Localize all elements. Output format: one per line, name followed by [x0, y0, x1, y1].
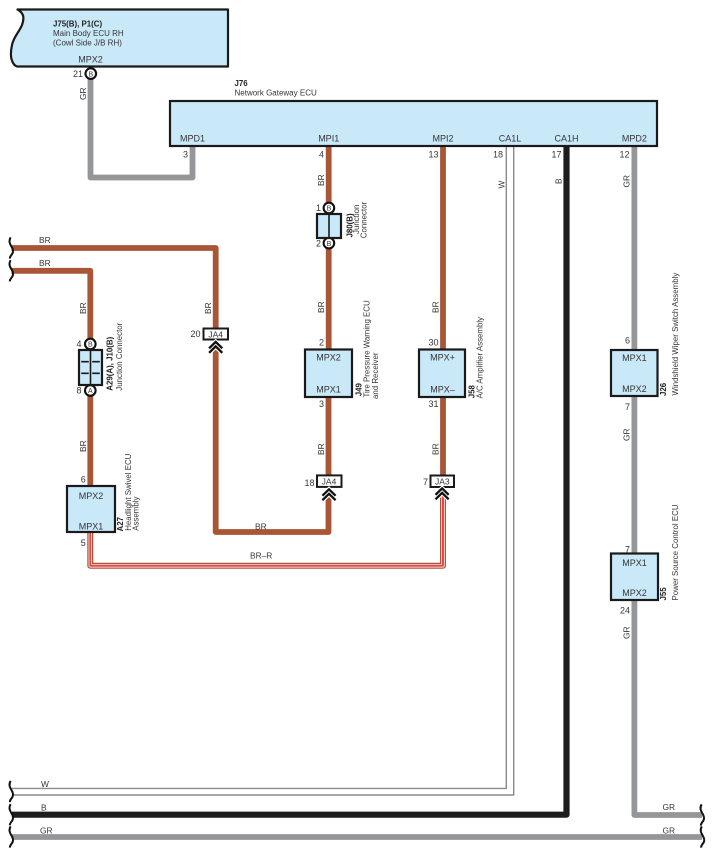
svg-text:JA4: JA4	[322, 477, 337, 487]
svg-text:J75(B), P1(C): J75(B), P1(C)	[53, 20, 102, 29]
ECU box J75(B) P1(C) Main Body ECU RH	[11, 10, 228, 67]
svg-text:MPD1: MPD1	[180, 134, 205, 144]
svg-text:8: 8	[76, 386, 81, 396]
wire GR J75 MPX2 to J76 MPD1	[78, 76, 193, 178]
svg-text:3: 3	[319, 399, 324, 409]
terminal B	[86, 68, 97, 79]
wire BR left edge to A29 junction connector to A27	[12, 258, 91, 487]
chevron arrows JA4 pin 20	[209, 342, 222, 353]
junction connector A29(A) J10(B)	[76, 322, 123, 395]
ECU box J76 Network Gateway ECU	[170, 79, 657, 160]
svg-text:GR: GR	[40, 826, 53, 836]
svg-text:MPX–: MPX–	[430, 385, 455, 395]
svg-text:A: A	[88, 388, 93, 395]
junction connector J80(B)	[316, 201, 368, 248]
wire GR J76 MPD2 through J26 and J55 to right edge	[622, 145, 703, 815]
svg-text:B: B	[327, 241, 332, 248]
svg-text:4: 4	[319, 150, 324, 160]
svg-text:GR: GR	[622, 428, 632, 441]
svg-text:BR: BR	[255, 522, 267, 532]
svg-text:B: B	[554, 178, 564, 184]
svg-text:GR: GR	[663, 802, 676, 812]
terminal B	[324, 238, 335, 249]
svg-text:MPX+: MPX+	[430, 353, 455, 363]
svg-text:BR: BR	[78, 440, 88, 452]
ECU box J58 A/C Amplifier Assembly	[419, 317, 485, 409]
svg-text:Power Source Control ECU: Power Source Control ECU	[671, 504, 680, 600]
svg-text:B: B	[88, 71, 93, 78]
svg-text:MPX2: MPX2	[622, 384, 647, 394]
connector break left GR	[9, 826, 13, 847]
svg-text:MPX1: MPX1	[622, 353, 647, 363]
svg-text:5: 5	[81, 538, 86, 548]
svg-text:7: 7	[625, 545, 630, 555]
svg-text:Main Body ECU RH: Main Body ECU RH	[53, 29, 124, 38]
svg-text:21: 21	[73, 69, 83, 79]
svg-text:Assembly: Assembly	[131, 497, 140, 531]
svg-text:GR: GR	[663, 825, 676, 835]
wire BR JA4 pin 20 loop to JA4 pin 18	[216, 348, 329, 532]
svg-text:JA3: JA3	[435, 477, 450, 487]
svg-text:MPX2: MPX2	[79, 491, 104, 501]
svg-text:20: 20	[190, 329, 200, 339]
svg-text:JA4: JA4	[208, 329, 223, 339]
svg-text:B: B	[88, 342, 93, 349]
svg-text:BR: BR	[78, 302, 88, 314]
svg-text:B: B	[41, 803, 47, 813]
svg-text:GR: GR	[78, 87, 88, 100]
svg-text:Connector: Connector	[359, 201, 368, 238]
svg-text:17: 17	[551, 150, 561, 160]
ECU box J26 Windshield Wiper Switch Assembly	[611, 273, 680, 412]
svg-text:MPX1: MPX1	[622, 558, 647, 568]
svg-text:BR: BR	[316, 301, 326, 313]
wire BR-R A27 MPX1 to JA3 pin 7	[90, 494, 443, 566]
terminal A	[85, 385, 96, 396]
svg-text:CA1H: CA1H	[554, 134, 578, 144]
svg-text:1: 1	[316, 203, 321, 213]
svg-text:MPX2: MPX2	[316, 353, 341, 363]
connector break right GR upper	[700, 804, 704, 825]
wire BR left edge to JA4 pin 20	[12, 235, 216, 329]
svg-text:2: 2	[319, 338, 324, 348]
svg-text:BR: BR	[203, 302, 213, 314]
connector break left W	[9, 781, 13, 802]
svg-text:MPX2: MPX2	[78, 55, 103, 65]
svg-text:A/C Amplifier Assembly: A/C Amplifier Assembly	[476, 317, 485, 399]
svg-text:3: 3	[183, 150, 188, 160]
svg-text:2: 2	[316, 239, 321, 249]
connector break right GR lower	[701, 826, 705, 847]
svg-text:MPX1: MPX1	[316, 385, 341, 395]
ECU box J49 Tire Pressure Warning ECU and Receiver	[305, 300, 380, 409]
svg-text:24: 24	[620, 606, 630, 616]
svg-text:BR: BR	[39, 235, 51, 245]
svg-text:18: 18	[304, 478, 314, 488]
connector JA3 pin 7	[423, 476, 454, 500]
wire BR J76 MPI2 to J58	[431, 145, 444, 351]
svg-text:MPI1: MPI1	[318, 134, 339, 144]
svg-text:BR–R: BR–R	[250, 551, 272, 561]
svg-text:Windshield Wiper Switch Assemb: Windshield Wiper Switch Assembly	[671, 273, 680, 396]
wire W J76 CA1L to left edge	[12, 147, 514, 795]
wire BR J49 MPX1 to JA4 pin 18	[316, 398, 329, 475]
svg-text:30: 30	[428, 338, 438, 348]
svg-text:B: B	[327, 206, 332, 213]
svg-text:12: 12	[619, 150, 629, 160]
ECU box A27 Headlight Swivel ECU Assembly	[67, 453, 140, 548]
wire B J76 CA1H to left edge	[12, 145, 567, 815]
svg-text:MPD2: MPD2	[622, 134, 647, 144]
svg-text:J55: J55	[659, 587, 668, 601]
svg-text:CA1L: CA1L	[499, 134, 522, 144]
svg-text:MPI2: MPI2	[432, 134, 453, 144]
svg-text:GR: GR	[622, 626, 632, 639]
svg-text:6: 6	[625, 336, 630, 346]
connector break left B	[9, 804, 13, 825]
svg-text:W: W	[41, 779, 49, 789]
pin 21 circle B of J75	[73, 68, 96, 79]
svg-text:7: 7	[423, 477, 428, 487]
svg-text:MPX2: MPX2	[622, 588, 647, 598]
svg-text:Junction Connector: Junction Connector	[115, 322, 124, 390]
svg-text:7: 7	[625, 402, 630, 412]
ECU box J55 Power Source Control ECU	[611, 504, 680, 615]
svg-text:4: 4	[76, 339, 81, 349]
terminal B	[324, 203, 335, 214]
svg-text:J26: J26	[659, 382, 668, 396]
wire BR J58 MPX- to JA3 pin 7	[431, 398, 444, 476]
svg-text:18: 18	[493, 150, 503, 160]
svg-text:GR: GR	[622, 175, 632, 188]
svg-text:BR: BR	[431, 443, 441, 455]
svg-text:and Receiver: and Receiver	[371, 352, 380, 399]
svg-text:BR: BR	[316, 443, 326, 455]
svg-text:(Cowl Side J/B RH): (Cowl Side J/B RH)	[53, 39, 122, 48]
svg-text:W: W	[497, 181, 507, 189]
svg-text:BR: BR	[39, 258, 51, 268]
svg-text:13: 13	[428, 150, 438, 160]
connector JA4 pin 18	[304, 475, 341, 500]
connector JA4 pin 20	[190, 329, 228, 353]
connector break left BR2	[9, 260, 13, 281]
svg-text:BR: BR	[316, 174, 326, 186]
svg-text:MPX1: MPX1	[79, 522, 104, 532]
wire BR J76 MPI1 to J80 to J49	[316, 145, 329, 351]
svg-text:31: 31	[428, 399, 438, 409]
connector break left BR1	[9, 237, 13, 258]
svg-text:BR: BR	[431, 301, 441, 313]
svg-text:A29(A), J10(B): A29(A), J10(B)	[105, 336, 114, 390]
svg-text:6: 6	[81, 475, 86, 485]
wire GR left edge to right edge bottom	[12, 825, 702, 837]
chevron arrows JA4 pin 18	[322, 489, 335, 500]
chevron arrows JA3 pin 7	[436, 488, 449, 499]
svg-text:Network Gateway ECU: Network Gateway ECU	[235, 89, 317, 98]
svg-text:J76: J76	[235, 79, 249, 88]
terminal B	[85, 339, 96, 350]
